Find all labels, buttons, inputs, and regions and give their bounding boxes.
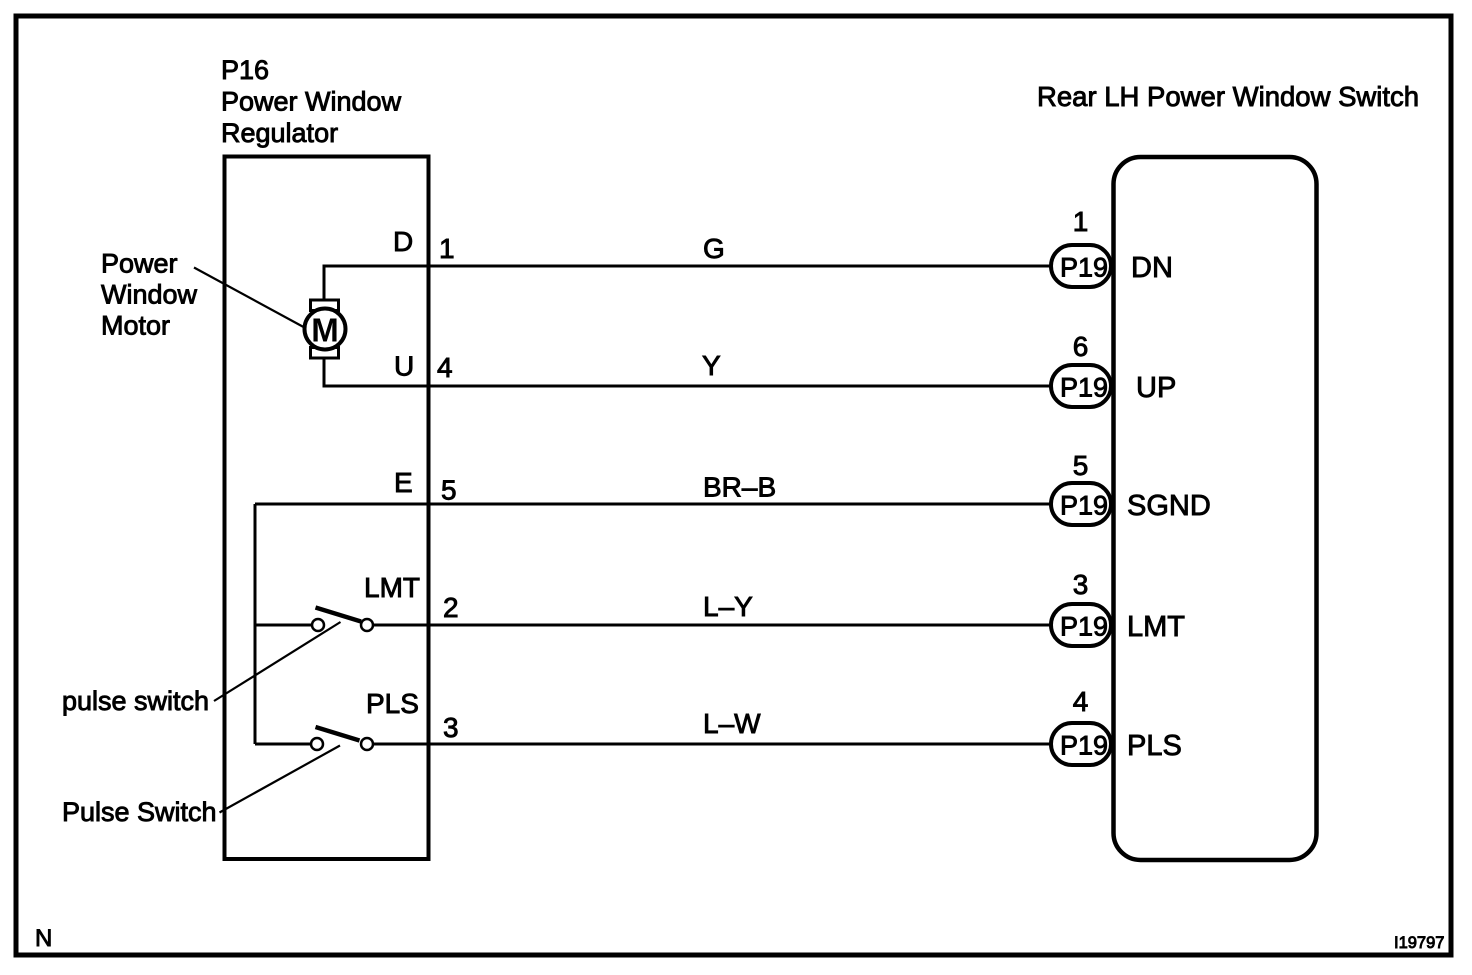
leader line to Pulse Switch [220, 746, 341, 813]
svg-text:P19: P19 [1060, 731, 1108, 761]
pin number 5 (regulator) [441, 475, 457, 506]
svg-text:Power: Power [101, 249, 178, 279]
wire label Y [702, 350, 721, 381]
connector Rear LH Power Window Switch (box) [1114, 157, 1317, 860]
svg-text:SGND: SGND [1127, 490, 1211, 522]
svg-text:P16: P16 [221, 55, 269, 85]
pin number 4 (switch) [1073, 686, 1089, 717]
wire D-G-DN [324, 266, 1051, 300]
pin E [394, 467, 413, 498]
pin number 6 (switch) [1073, 331, 1089, 362]
label Power Window Motor [101, 249, 198, 341]
connector P16 Power Window Regulator (box) [225, 157, 429, 860]
svg-text:U: U [394, 351, 414, 382]
pin number 1 (switch) [1073, 206, 1089, 237]
svg-text:Regulator: Regulator [221, 118, 338, 148]
wire U-Y-UP [324, 358, 1051, 386]
label P16 Power Window Regulator [221, 55, 402, 148]
connector pin P19-1 (DN) [1051, 245, 1111, 287]
leader line to pulse switch [214, 622, 341, 701]
figure number I19797 [1394, 934, 1444, 952]
pin name DN [1131, 252, 1173, 284]
svg-text:I19797: I19797 [1394, 934, 1444, 952]
svg-text:Window: Window [101, 280, 198, 310]
pin name SGND [1127, 490, 1211, 522]
pin name UP [1136, 372, 1176, 404]
svg-text:D: D [393, 226, 413, 257]
svg-text:BR–B: BR–B [703, 472, 776, 503]
svg-text:4: 4 [437, 352, 453, 383]
label Rear LH Power Window Switch [1037, 81, 1419, 112]
pin name LMT [1127, 611, 1185, 643]
connector pin P19-3 (LMT) [1051, 604, 1111, 646]
wire LMT-L-Y [373, 624, 1051, 627]
svg-text:P19: P19 [1060, 253, 1108, 283]
wire stub to LMT switch [255, 624, 312, 627]
pin D [393, 226, 413, 257]
svg-text:6: 6 [1073, 331, 1089, 362]
wire label L-W [703, 708, 761, 739]
pin PLS [366, 688, 419, 719]
label pulse switch [62, 686, 209, 716]
connector pin P19-4 (PLS) [1051, 723, 1111, 765]
svg-text:LMT: LMT [364, 572, 420, 603]
svg-text:1: 1 [439, 233, 455, 264]
pin number 5 (switch) [1073, 450, 1089, 481]
svg-text:3: 3 [1073, 569, 1089, 600]
svg-text:Y: Y [702, 350, 721, 381]
svg-text:Power Window: Power Window [221, 87, 402, 117]
svg-text:UP: UP [1136, 372, 1176, 404]
pin LMT [364, 572, 420, 603]
wire label L-Y [703, 591, 753, 622]
svg-text:LMT: LMT [1127, 611, 1185, 643]
svg-text:2: 2 [443, 592, 459, 623]
svg-text:5: 5 [441, 475, 457, 506]
svg-text:M: M [311, 312, 339, 349]
label Pulse Switch [62, 797, 217, 827]
svg-text:PLS: PLS [1127, 730, 1182, 762]
svg-text:E: E [394, 467, 413, 498]
svg-text:L–Y: L–Y [703, 591, 753, 622]
switch S1 (pulse switch, LMT) [312, 608, 373, 632]
switch S2 (Pulse Switch, PLS) [311, 727, 373, 750]
svg-text:PLS: PLS [366, 688, 419, 719]
leader line to motor [194, 268, 304, 328]
pin number 1 (regulator) [439, 233, 455, 264]
wire stub to PLS switch [255, 743, 311, 746]
svg-text:P19: P19 [1060, 491, 1108, 521]
svg-text:5: 5 [1073, 450, 1089, 481]
svg-text:N: N [35, 925, 52, 952]
svg-text:Motor: Motor [101, 311, 170, 341]
svg-text:Rear LH Power Window Switch: Rear LH Power Window Switch [1037, 81, 1419, 112]
pin number 3 (switch) [1073, 569, 1089, 600]
svg-text:1: 1 [1073, 206, 1089, 237]
wire PLS-L-W [373, 743, 1051, 746]
svg-text:4: 4 [1073, 686, 1089, 717]
pin number 3 (regulator) [443, 712, 459, 743]
wire label BR-B [703, 472, 776, 503]
svg-text:Pulse Switch: Pulse Switch [62, 797, 217, 827]
pin name PLS [1127, 730, 1182, 762]
svg-text:DN: DN [1131, 252, 1173, 284]
note N [35, 925, 52, 952]
wire E-BR-B-SGND [255, 503, 1051, 506]
svg-text:P19: P19 [1060, 373, 1108, 403]
svg-text:G: G [703, 233, 725, 264]
wire label G [703, 233, 725, 264]
svg-text:3: 3 [443, 712, 459, 743]
svg-text:pulse switch: pulse switch [62, 686, 209, 716]
svg-text:P19: P19 [1060, 612, 1108, 642]
connector pin P19-6 (UP) [1051, 365, 1111, 407]
connector pin P19-5 (SGND) [1051, 483, 1111, 525]
pin number 2 (regulator) [443, 592, 459, 623]
pin number 4 (regulator) [437, 352, 453, 383]
svg-text:L–W: L–W [703, 708, 761, 739]
pin U [394, 351, 414, 382]
motor M (Power Window Motor) [305, 300, 346, 358]
wire internal vertical bus [254, 504, 257, 744]
